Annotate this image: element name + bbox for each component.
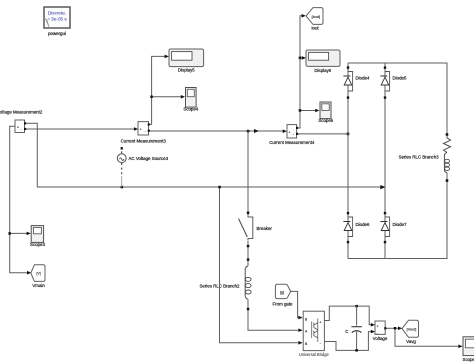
svg-text:Current Measurement4: Current Measurement4 — [269, 140, 315, 145]
wire breaker column top — [247, 131, 249, 213]
svg-text:g: g — [305, 317, 307, 321]
wire gate to bridge g — [291, 291, 303, 319]
voltage measurement VM3 — [373, 321, 388, 341]
svg-text:C: C — [345, 329, 348, 334]
svg-text:+: + — [319, 320, 321, 324]
goto tag Iout — [306, 8, 323, 31]
series RLC branch L2 — [199, 258, 251, 310]
current measurement CM3 — [121, 122, 167, 144]
svg-text:-: - — [145, 130, 146, 134]
svg-text:Vavg: Vavg — [406, 339, 416, 344]
svg-text:Universal Bridge: Universal Bridge — [299, 352, 330, 357]
voltage measurement VM2 — [0, 110, 43, 133]
svg-text:= 5e-05 s: = 5e-05 s — [47, 17, 67, 22]
wire CM3 to CM4 — [150, 129, 287, 133]
wire breaker to RLC2 — [247, 247, 249, 259]
svg-text:-: - — [21, 128, 22, 132]
svg-text:[Vout]: [Vout] — [407, 328, 417, 332]
svg-text:[g]: [g] — [280, 290, 284, 294]
svg-text:Scope6: Scope6 — [463, 357, 474, 362]
svg-text:+: + — [377, 324, 379, 328]
wire CM3 signal to Display5 and Scope4 — [150, 55, 185, 125]
wire RLC2 to bridge input A — [248, 310, 303, 332]
wire CM4 output to bridge leg1 — [298, 133, 349, 136]
current measurement CM4 — [269, 125, 315, 145]
svg-text:-: - — [293, 133, 294, 137]
svg-text:Diode5: Diode5 — [393, 76, 407, 81]
svg-text:-: - — [320, 341, 321, 345]
wire top DC rail — [348, 63, 447, 134]
svg-text:Diode4: Diode4 — [356, 76, 370, 81]
powergui U0 — [44, 7, 70, 36]
display Display6 — [306, 50, 340, 73]
svg-text:Voltage Measurement2: Voltage Measurement2 — [0, 110, 43, 115]
diode D6 — [343, 212, 370, 243]
goto tag Vavg — [402, 320, 419, 344]
from tag gate — [272, 284, 293, 306]
svg-text:Current Measurement3: Current Measurement3 — [121, 139, 167, 144]
series RLC branch R3 L3 — [399, 133, 451, 182]
wire CM4 signal to Iout Display6 Scope5 — [298, 14, 319, 128]
diode D7 — [380, 212, 407, 243]
wire VM2 minus to bottom rail — [26, 123, 386, 189]
svg-text:-: - — [377, 331, 378, 335]
scope Scope5 — [318, 102, 333, 123]
svg-text:Breaker: Breaker — [257, 226, 273, 231]
svg-text:From gate: From gate — [272, 301, 293, 306]
svg-text:powergui: powergui — [48, 31, 66, 36]
display Display7 — [463, 337, 474, 362]
svg-text:Display5: Display5 — [178, 67, 195, 72]
wire diode leg2 — [384, 63, 386, 259]
wire bridge minus to voltage minus — [324, 330, 375, 352]
wire VM2 plus to Current Measurement3 — [26, 127, 138, 131]
svg-text:[V]: [V] — [37, 272, 41, 276]
svg-text:+: + — [288, 131, 290, 135]
ac voltage source V1 — [117, 147, 168, 187]
svg-text:Discrete,: Discrete, — [48, 11, 66, 16]
svg-text:[Iout]: [Iout] — [312, 15, 320, 19]
svg-text:Scope4: Scope4 — [183, 106, 198, 111]
display Display5 — [169, 49, 204, 72]
svg-text:Display6: Display6 — [314, 68, 331, 73]
breaker B1 — [239, 212, 273, 248]
diode D4 — [343, 66, 370, 98]
svg-text:AC Voltage Source3: AC Voltage Source3 — [129, 156, 169, 161]
goto tag Vmain — [31, 265, 46, 288]
wire diode leg1 — [347, 63, 349, 259]
wire VM2 signal to Scope3 and Goto — [8, 126, 31, 274]
wire bottom DC rail — [348, 182, 447, 259]
scope Scope3 — [30, 226, 45, 247]
scope Scope4 — [183, 88, 198, 112]
svg-text:Scope5: Scope5 — [318, 118, 333, 123]
diode D5 — [380, 66, 407, 98]
wire voltage out to goto and display — [386, 327, 462, 349]
wire bridge plus to voltage plus — [324, 305, 375, 327]
svg-text:Diode6: Diode6 — [356, 222, 370, 227]
svg-text:Voltage: Voltage — [373, 336, 388, 341]
wire neutral column to bridge input B — [220, 188, 303, 345]
svg-text:Series RLC Branch3: Series RLC Branch3 — [399, 155, 440, 160]
svg-text:+: + — [17, 126, 19, 130]
svg-text:Vmain: Vmain — [32, 283, 45, 288]
svg-text:Diode7: Diode7 — [393, 222, 407, 227]
universal bridge U1 — [299, 311, 330, 357]
svg-text:Iout: Iout — [311, 25, 319, 30]
svg-text:+: + — [140, 128, 142, 132]
svg-text:Scope3: Scope3 — [30, 242, 45, 247]
capacitor C — [345, 306, 362, 350]
